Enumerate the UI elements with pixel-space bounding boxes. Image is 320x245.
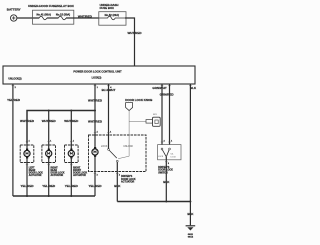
wire from under-dash box down to control unit xyxy=(125,18,135,66)
wire GRN/WHT from control unit xyxy=(161,84,163,145)
svg-text:1: 1 xyxy=(29,140,30,142)
wire label GRN/RED xyxy=(160,93,175,97)
motor M1 left rear xyxy=(24,143,30,196)
svg-text:LOCK(2): LOCK(2) xyxy=(92,76,102,79)
svg-text:WHT/RED: WHT/RED xyxy=(42,119,57,123)
svg-text:BLK: BLK xyxy=(163,180,170,184)
switch S2 contacts xyxy=(161,148,170,201)
svg-text:POWER DOOR LOCK CONTROL UNIT: POWER DOOR LOCK CONTROL UNIT xyxy=(73,69,122,73)
motor M3 right front xyxy=(68,149,74,196)
svg-text:2: 2 xyxy=(15,87,16,89)
knob switch S1 xyxy=(108,149,119,202)
pin 6 tick (lock switch) xyxy=(161,85,164,87)
wire label BLK lower xyxy=(187,212,194,216)
svg-text:ACTUATOR: ACTUATOR xyxy=(51,174,64,177)
svg-text:No.15 (30A): No.15 (30A) xyxy=(56,13,70,17)
junction dot bus to ground line xyxy=(189,201,191,203)
pin 3 tick below switch box xyxy=(165,162,169,165)
wire GRN/RED from control unit xyxy=(169,84,171,145)
door lock knob symbol xyxy=(126,103,133,111)
wire drop to left rear actuator xyxy=(20,119,35,123)
WHT/RED distribution bus xyxy=(27,111,95,144)
mechanical link knob to switch xyxy=(118,111,129,159)
battery xyxy=(7,8,21,22)
svg-text:YEL/RED: YEL/RED xyxy=(7,98,21,102)
svg-text:ACTUATOR: ACTUATOR xyxy=(73,174,86,177)
svg-text:3: 3 xyxy=(168,163,169,165)
wire YEL/RED from pin 2 down left side xyxy=(12,84,14,196)
left rear actuator label xyxy=(29,167,43,177)
wire label BLU/WHT xyxy=(102,88,116,92)
svg-text:LOCK: LOCK xyxy=(101,145,108,148)
pin 4 tick (knob switch input) xyxy=(107,86,112,89)
svg-text:YEL/RED: YEL/RED xyxy=(65,184,79,188)
fuse No.52 (20A) xyxy=(99,13,125,20)
svg-text:LOCK: LOCK xyxy=(171,156,177,158)
svg-text:No.41 (80A): No.41 (80A) xyxy=(37,13,51,17)
svg-text:DOOR LOCK KNOB: DOOR LOCK KNOB xyxy=(125,98,152,102)
svg-text:BLU/WHT: BLU/WHT xyxy=(102,88,116,92)
pin 4 tick above driver's box xyxy=(94,130,98,133)
key symbol xyxy=(146,117,160,126)
wire label WHT/RED upper xyxy=(88,98,103,102)
svg-text:UNLOCK(2): UNLOCK(2) xyxy=(8,78,21,81)
pin 1 tick (LOCK output) xyxy=(94,86,98,89)
pin 2 tick xyxy=(26,164,28,166)
pin 1 tick above driver's box xyxy=(107,131,111,133)
svg-text:BATTERY: BATTERY xyxy=(7,8,21,12)
svg-text:WHT/RED: WHT/RED xyxy=(88,120,103,124)
svg-text:UNDER-HOOD FUSE/RELAY BOX: UNDER-HOOD FUSE/RELAY BOX xyxy=(28,4,74,8)
svg-text:G512: G512 xyxy=(188,237,194,239)
right front actuator label xyxy=(73,167,87,177)
wire label YEL/RED xyxy=(42,184,56,188)
pin 1 tick xyxy=(70,140,74,142)
svg-text:KEY: KEY xyxy=(153,114,158,116)
wire battery to under-hood fuse box xyxy=(17,17,39,19)
wire between fuses xyxy=(47,17,59,19)
svg-text:WHT/RED: WHT/RED xyxy=(128,31,143,35)
wire label YEL/RED xyxy=(7,98,21,102)
svg-text:FUSE BOX: FUSE BOX xyxy=(100,6,114,10)
pin 5 tick (unlock switch) xyxy=(168,85,171,87)
pin 2 tick (UNLOCK output) xyxy=(12,86,16,89)
right front door lock actuator box (dashed) xyxy=(65,145,79,163)
YEL/RED return bus xyxy=(13,195,95,197)
wire label YEL/RED xyxy=(65,184,79,188)
svg-text:3: 3 xyxy=(97,175,98,177)
driver's door lock switch box xyxy=(158,145,181,160)
svg-text:WHT/RED: WHT/RED xyxy=(78,15,93,19)
under-dash fuse box xyxy=(99,3,126,25)
BLK ground bus xyxy=(117,201,190,203)
pin 2 tick xyxy=(48,164,50,166)
svg-text:1: 1 xyxy=(73,140,74,142)
svg-text:WHT/RED: WHT/RED xyxy=(64,119,79,123)
pin 7 tick (ground) xyxy=(189,85,192,87)
wire label WHT/RED lower xyxy=(88,120,103,124)
pin 1 tick xyxy=(48,140,52,142)
junction dots on return bus xyxy=(26,195,28,197)
pin 3 tick below driver's box xyxy=(94,173,98,176)
svg-text:1: 1 xyxy=(97,87,98,89)
svg-text:REAR: REAR xyxy=(51,169,58,172)
pin 2 tick below driver's box xyxy=(116,173,120,176)
ground G511 xyxy=(186,226,196,239)
svg-text:4: 4 xyxy=(97,130,98,133)
pin 1 tick xyxy=(26,140,30,142)
wire under-hood box to under-dash box xyxy=(66,17,99,19)
svg-text:YEL/RED: YEL/RED xyxy=(88,184,102,188)
mechanical link to key xyxy=(129,121,146,123)
junction at bus and pin1 wire xyxy=(94,110,96,112)
power door lock control unit U1 xyxy=(3,66,195,84)
wire label BLK knob switch xyxy=(114,184,121,188)
svg-text:WHT/RED: WHT/RED xyxy=(88,98,103,102)
svg-text:1: 1 xyxy=(171,141,172,143)
svg-text:1: 1 xyxy=(50,140,51,142)
svg-text:U/L: U/L xyxy=(171,153,174,155)
switch position labels xyxy=(158,153,176,158)
pin 1 tick above switch box xyxy=(168,141,172,143)
wire label WHT/RED xyxy=(78,15,93,19)
wire label WHT/RED vertical feed xyxy=(128,31,143,35)
svg-text:WHT/RED: WHT/RED xyxy=(20,119,35,123)
svg-text:BLK: BLK xyxy=(187,212,194,216)
svg-text:2: 2 xyxy=(164,141,165,143)
svg-text:G511: G511 xyxy=(188,234,194,236)
wire WHT/RED from pin 1 down xyxy=(94,84,96,149)
svg-text:SWITCH: SWITCH xyxy=(158,172,168,175)
svg-text:GRN/WHT: GRN/WHT xyxy=(152,86,166,90)
svg-text:1: 1 xyxy=(110,131,111,133)
svg-text:BLK: BLK xyxy=(114,184,121,188)
svg-text:ACTUATOR: ACTUATOR xyxy=(29,174,42,177)
svg-text:No.52 (20A): No.52 (20A) xyxy=(105,13,119,17)
svg-text:YEL/RED: YEL/RED xyxy=(20,184,34,188)
svg-text:YEL/RED: YEL/RED xyxy=(42,184,56,188)
left rear door lock actuator box (dashed) xyxy=(20,145,34,163)
driver's actuator label xyxy=(121,175,136,184)
svg-text:ACTUATOR: ACTUATOR xyxy=(121,181,134,184)
svg-text:LOCK: LOCK xyxy=(158,156,164,158)
svg-text:GRN/RED: GRN/RED xyxy=(160,93,175,97)
driver's door lock actuator box (dashed) xyxy=(89,135,147,172)
right rear door lock actuator box (dashed) xyxy=(42,145,56,163)
driver's switch label xyxy=(158,166,173,175)
wire drop to front actuator xyxy=(70,111,72,151)
motor M4 driver's xyxy=(92,147,98,196)
right rear actuator label xyxy=(51,167,65,177)
pin 2 tick xyxy=(70,164,72,166)
svg-text:2: 2 xyxy=(119,175,120,177)
wire label YEL/RED xyxy=(20,184,34,188)
wire BLU/WHT from pin 4 down xyxy=(108,84,110,149)
motor M2 right rear xyxy=(46,149,52,196)
junction dot switch line to bus xyxy=(165,201,167,203)
fuse No.41 (80A) xyxy=(37,13,51,20)
wire BLK from control unit right xyxy=(189,84,191,225)
wire drop to right rear actuator xyxy=(48,111,50,151)
svg-text:REAR: REAR xyxy=(29,169,36,172)
fuse No.15 (30A) xyxy=(56,13,70,20)
pin 2 tick above switch box xyxy=(161,141,165,143)
wire label BLK switch xyxy=(163,180,170,184)
wire label YEL/RED driver's motor xyxy=(88,184,102,188)
svg-text:BLK: BLK xyxy=(190,86,197,90)
svg-text:UNLOCK: UNLOCK xyxy=(123,145,133,148)
under-hood fuse/relay box xyxy=(28,4,74,24)
